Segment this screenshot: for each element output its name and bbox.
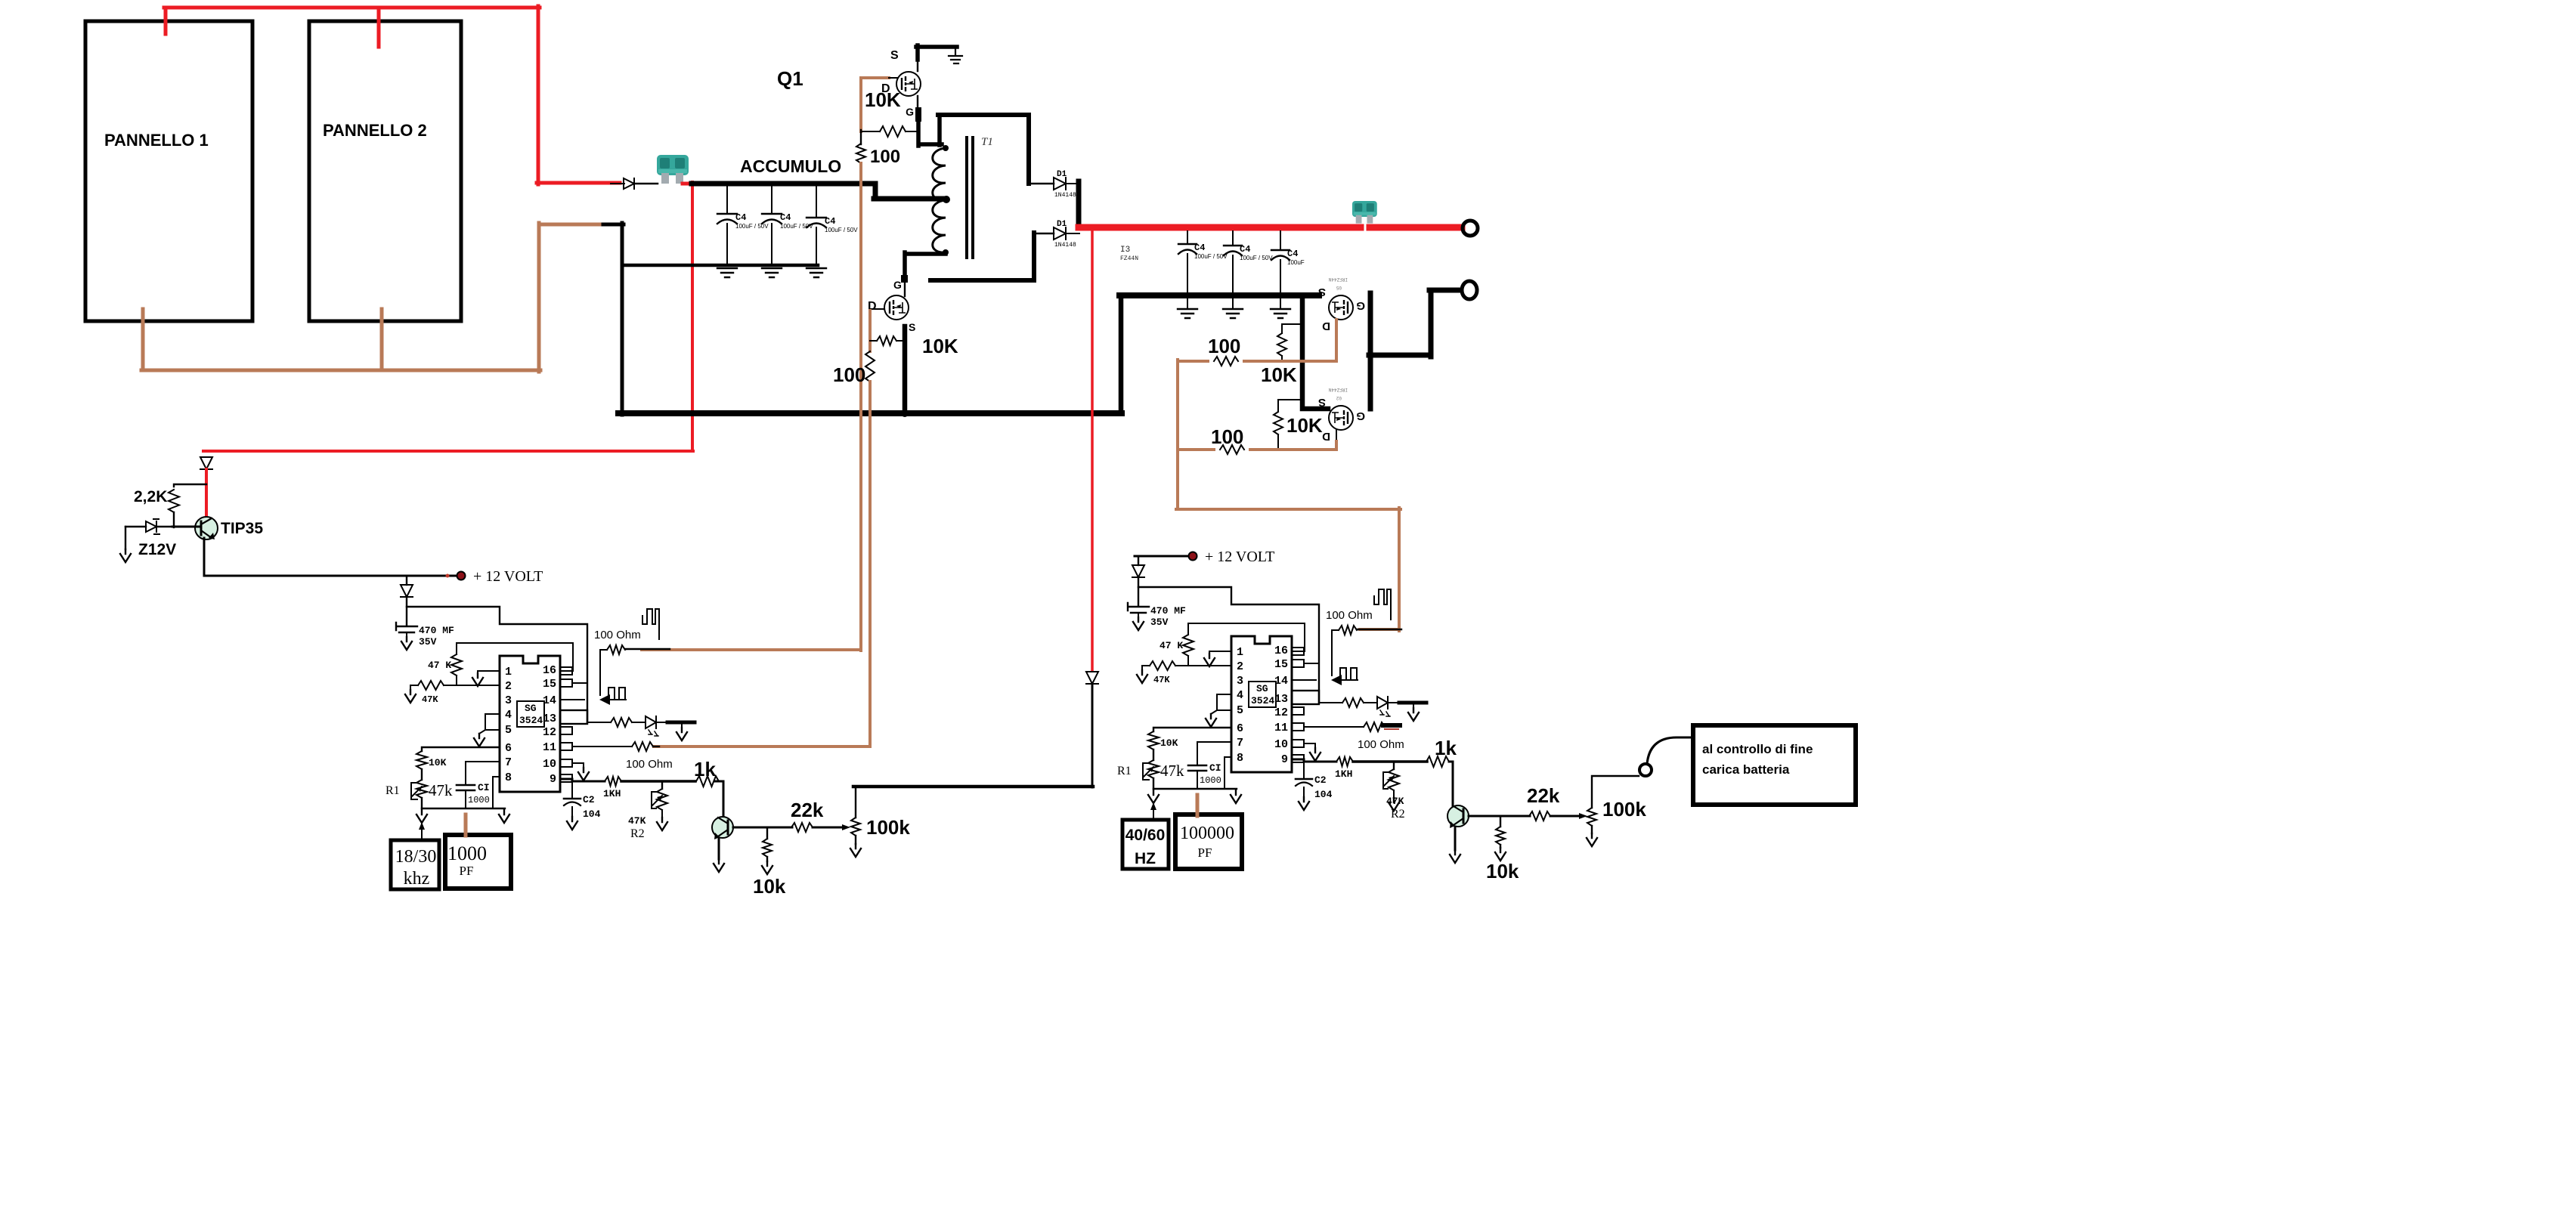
wire curve to control box — [1647, 737, 1694, 764]
resistor 2,2K — [174, 484, 206, 487]
svg-text:carica batteria: carica batteria — [1702, 762, 1790, 777]
potentiometer R1 47k IC2 — [1148, 760, 1159, 778]
resistor IC2 pin13 LED — [1342, 698, 1364, 707]
resistor 47K IC2 pin2 to ground — [1150, 661, 1175, 670]
zener Z12V — [125, 526, 146, 527]
svg-text:PF: PF — [460, 864, 474, 878]
svg-text:1KH: 1KH — [603, 788, 621, 799]
wire right caps ground rail — [1119, 292, 1319, 298]
wire IC1 pin7 — [466, 762, 500, 784]
svg-text:HZ: HZ — [1135, 850, 1156, 867]
box al controllo di fine carica batteria — [1693, 725, 1856, 805]
wire IC2 pin9 compensation run — [1292, 759, 1336, 762]
svg-text:8: 8 — [1237, 752, 1243, 765]
wire +12V to IC2 supply — [1138, 577, 1319, 703]
potentiometer R1 47k IC1 — [416, 780, 427, 798]
svg-text:35V: 35V — [419, 636, 437, 648]
svg-text:47K: 47K — [1153, 675, 1170, 685]
svg-text:9: 9 — [550, 773, 556, 786]
svg-text:14: 14 — [543, 694, 556, 707]
wire brown Q2 gate-drive upper — [868, 311, 872, 351]
svg-text:IRFZ44N: IRFZ44N — [1328, 277, 1348, 282]
diode D1 upper 1N4148 — [1054, 178, 1066, 190]
wire +12V stub block2 — [1135, 555, 1188, 558]
resistor 1k IC2 — [1410, 761, 1427, 763]
svg-text:+ 12 VOLT: + 12 VOLT — [473, 568, 543, 585]
wire red output positive bus — [1079, 224, 1361, 231]
svg-text:47k: 47k — [429, 781, 453, 799]
svg-text:PANNELLO 1: PANNELLO 1 — [104, 131, 209, 150]
wire lower accumulo rail — [622, 264, 818, 267]
resistor 1KH IC2 — [1336, 757, 1353, 766]
svg-text:R1: R1 — [385, 784, 400, 797]
IC2 SG3524 label box — [1249, 682, 1276, 707]
svg-text:1: 1 — [505, 666, 512, 679]
resistor 10K Q2 — [870, 340, 877, 342]
diode D1 lower 1N4148 — [1054, 227, 1066, 240]
resistor 10K IC2 timing — [1148, 731, 1159, 750]
ground below C4 #3 — [807, 268, 826, 277]
arrow from 40/60 box — [1153, 807, 1154, 819]
wire thick output to terminal 2 — [1369, 290, 1461, 409]
wire black M4 drain lead — [1336, 429, 1337, 441]
ground below R2 IC1 — [657, 818, 667, 830]
svg-text:3524: 3524 — [1251, 695, 1274, 706]
wire red accumulo node down to TIP35 regulator — [203, 182, 693, 451]
capacitor C4 filter #2 — [771, 187, 772, 214]
wire IC1 pin1 to ground — [478, 671, 500, 673]
node Q2 gate terminal — [901, 275, 908, 283]
ground below output C4 #2 — [1223, 309, 1243, 318]
wire IC1 pin10 to ground — [572, 763, 584, 768]
svg-text:100uF: 100uF — [1287, 259, 1305, 266]
svg-text:2: 2 — [1237, 660, 1243, 673]
ground left timing rail IC1 — [416, 810, 427, 823]
potentiometer 100k block1 — [842, 824, 850, 830]
ground below C2 IC2 — [1299, 797, 1309, 810]
fuse F2 output — [1352, 201, 1377, 224]
svg-text:13: 13 — [1274, 693, 1288, 706]
svg-text:15: 15 — [1274, 658, 1288, 671]
wire IC1 pin15 Vcc — [572, 682, 587, 684]
diode above TIP35 — [203, 450, 209, 453]
ground left timing rail IC2 — [1148, 790, 1159, 803]
capacitor CI IC2 — [1188, 765, 1206, 771]
svg-text:4: 4 — [505, 709, 512, 722]
squarewave glyph upper IC2 — [1374, 589, 1391, 620]
node primary bottom — [943, 249, 949, 255]
svg-text:6: 6 — [1237, 722, 1243, 735]
svg-text:CI: CI — [1209, 762, 1221, 774]
svg-text:khz: khz — [404, 869, 430, 889]
wire brown gate-drive to Q1 drain — [861, 78, 889, 131]
svg-text:1KH: 1KH — [1335, 768, 1352, 780]
node small red mark — [446, 574, 450, 578]
IC2 pin stubs right — [1292, 648, 1304, 655]
svg-text:100uF / 50V: 100uF / 50V — [1240, 255, 1273, 261]
svg-text:S: S — [1318, 286, 1326, 298]
box 100000 PF — [1175, 815, 1242, 869]
wire thick pot top link — [853, 785, 1093, 789]
capacitor C4 output filter #1 — [1187, 231, 1188, 244]
svg-text:15: 15 — [543, 678, 556, 691]
squarewave glyph at IC1 pin14 — [608, 688, 626, 700]
output terminal positive — [1463, 221, 1478, 236]
wire brown M4 gate rail — [1178, 441, 1336, 450]
wire emitter run block2 — [1469, 815, 1530, 818]
node +12V block1 — [457, 572, 465, 580]
svg-text:G: G — [1356, 410, 1365, 422]
svg-text:R1: R1 — [1117, 765, 1132, 777]
svg-text:D: D — [1322, 430, 1330, 443]
LED at IC2 pin13 — [1377, 697, 1388, 709]
resistor 100 in Q1 drive line — [856, 144, 865, 163]
svg-text:10K: 10K — [1261, 363, 1297, 386]
svg-text:47K: 47K — [628, 815, 646, 827]
wire IC1 pin13 row — [587, 722, 611, 723]
wire timing bottom rail IC1 — [422, 808, 505, 809]
capacitor 470MF PWM1 — [406, 607, 407, 625]
wire brown stub to 1000PF box — [464, 815, 468, 836]
node Q1 gate terminal — [915, 107, 921, 122]
wire thick at IC2 LED — [1399, 701, 1426, 705]
IC1 SG3524 label box — [517, 701, 544, 727]
svg-text:FZ44N: FZ44N — [1120, 255, 1138, 262]
junction dot on ground bus left — [705, 410, 711, 416]
ground below output C4 #3 — [1271, 309, 1290, 318]
IC2 left pin numbers — [1237, 646, 1243, 765]
IC1 right pin numbers — [543, 664, 556, 786]
wire thick stub IC2 pin11 — [1383, 723, 1400, 728]
svg-text:2: 2 — [505, 680, 512, 693]
wire red fuse to node — [683, 182, 693, 186]
svg-text:10K: 10K — [1286, 414, 1323, 437]
wire IC2 pin15 Vcc — [1304, 663, 1319, 664]
resistor 100 in Q2 drive line — [865, 351, 875, 382]
resistor 10K Q1 gate — [861, 131, 880, 132]
svg-text:14: 14 — [1274, 675, 1288, 688]
svg-text:D1: D1 — [1057, 170, 1067, 179]
resistor 100 Ohm IC1 pin16 drive — [600, 649, 607, 651]
LED at IC1 pin13 — [646, 716, 656, 728]
wire brown gate rails to PWM2 — [1176, 360, 1401, 631]
svg-text:D1: D1 — [1057, 220, 1067, 229]
capacitor C4 filter #3 — [816, 187, 817, 218]
ground at IC1 pins4-5 — [474, 734, 485, 747]
box 40/60 HZ — [1122, 820, 1169, 869]
resistor 47K pot R2 IC1 — [661, 781, 663, 789]
svg-text:470 MF: 470 MF — [1150, 605, 1186, 617]
svg-text:C4: C4 — [1194, 243, 1205, 253]
ground below output C4 #1 — [1178, 309, 1197, 318]
solar panel PANNELLO 1 — [85, 21, 252, 321]
diode in sense line — [1086, 672, 1098, 684]
svg-text:47K: 47K — [1386, 796, 1404, 807]
svg-text:C4: C4 — [1287, 249, 1298, 259]
svg-text:10k: 10k — [1486, 860, 1519, 883]
capacitor C4 filter #1 — [726, 187, 728, 214]
resistor 47K IC2 pin16-pin2 — [1187, 623, 1189, 635]
wire to diode D1 upper — [1029, 183, 1054, 185]
svg-text:10K: 10K — [865, 88, 901, 111]
ground at zener — [125, 527, 126, 549]
capacitor C2 104 IC2 — [1303, 762, 1305, 777]
wire sense line to 100k pot node — [1091, 684, 1094, 787]
resistor 1KH IC1 — [605, 777, 621, 786]
wire IC2 pin6 timing — [1153, 728, 1231, 731]
svg-text:100 Ohm: 100 Ohm — [1326, 609, 1373, 622]
svg-text:100 Ohm: 100 Ohm — [594, 629, 641, 641]
resistor 1k IC1 — [696, 776, 719, 787]
squarewave glyph upper IC1 — [642, 609, 659, 639]
svg-text:35V: 35V — [1150, 617, 1169, 628]
box 1000 PF — [445, 835, 511, 889]
svg-text:Q1: Q1 — [777, 67, 803, 90]
svg-text:100: 100 — [870, 147, 900, 167]
ground at IC1 pin1 — [472, 673, 483, 686]
wire IC2 pin1 to ground — [1209, 651, 1231, 654]
svg-text:5: 5 — [1237, 704, 1243, 717]
svg-text:G: G — [906, 106, 914, 118]
svg-text:47k: 47k — [1160, 762, 1184, 780]
wire brown gate-drive lower run — [642, 163, 861, 651]
wire thick transformer secondary top to D1 — [938, 115, 1029, 184]
ground at IC2 pins4-5 — [1206, 714, 1216, 727]
svg-text:13: 13 — [543, 713, 556, 725]
wire IC1 pin6 timing — [422, 747, 500, 751]
svg-text:11: 11 — [1274, 722, 1288, 734]
resistor 22k block2 — [1529, 811, 1550, 821]
svg-text:D: D — [1322, 320, 1330, 332]
svg-text:SG: SG — [1256, 683, 1268, 694]
resistor IC1 pin13 LED — [611, 718, 632, 727]
wire brown M3 gate rail — [1178, 320, 1336, 361]
mosfet M4 lower output — [1329, 406, 1353, 430]
svg-text:al controllo di fine: al controllo di fine — [1702, 742, 1813, 756]
svg-text:104: 104 — [583, 808, 601, 820]
wire +12V to IC1 supply — [407, 597, 587, 722]
wire IC2 pin16 Vref loop — [1188, 623, 1305, 651]
svg-text:100uF / 50V: 100uF / 50V — [735, 223, 769, 230]
svg-text:C4: C4 — [735, 212, 746, 223]
svg-text:100uF / 50V: 100uF / 50V — [1194, 253, 1228, 260]
svg-text:1k: 1k — [694, 758, 716, 781]
svg-text:100: 100 — [1211, 425, 1243, 448]
wire Q1 gate down to transformer — [917, 96, 918, 133]
svg-text:C2: C2 — [1314, 774, 1327, 786]
svg-text:3524: 3524 — [519, 715, 543, 726]
svg-text:5: 5 — [505, 724, 512, 737]
svg-text:16: 16 — [543, 664, 556, 677]
svg-text:18/30: 18/30 — [395, 847, 437, 867]
svg-text:2,2K: 2,2K — [134, 488, 167, 505]
resistor 10K at M3 — [1282, 324, 1302, 333]
resistor 47K pot R2 IC2 — [1393, 762, 1395, 769]
wire 100 Ohm tap down to pin14 node IC2 — [1331, 631, 1333, 675]
svg-text:3: 3 — [505, 694, 512, 707]
wire IC2 pin2 — [1175, 665, 1231, 666]
solar panel PANNELLO 2 — [309, 21, 461, 321]
wire IC1 pin11 drive — [572, 746, 632, 747]
svg-text:4: 4 — [1237, 689, 1243, 702]
svg-text:7: 7 — [1237, 737, 1243, 750]
svg-text:C4: C4 — [780, 212, 791, 223]
ground below C4 #2 — [762, 268, 782, 277]
svg-text:1: 1 — [1237, 646, 1243, 659]
resistor 100 Ohm IC2 pin16 drive — [1332, 629, 1339, 631]
svg-text:6: 6 — [505, 742, 512, 755]
IC2 right pin numbers — [1274, 645, 1288, 766]
ground below C4 #1 — [717, 268, 737, 277]
svg-text:100: 100 — [1208, 335, 1240, 357]
wire IC1 pin14 output — [560, 699, 584, 700]
svg-text:I3: I3 — [1120, 246, 1130, 255]
arrow from 18/30 box — [421, 827, 423, 840]
wire IC2 pin8 — [1225, 757, 1231, 789]
wire thick source bus M3-M4 — [1302, 295, 1328, 409]
svg-text:Z12V: Z12V — [138, 541, 176, 558]
ground below R2 IC2 — [1389, 798, 1399, 811]
wire main ground bus — [618, 410, 1122, 416]
resistor 22k block1 — [791, 823, 813, 832]
svg-text:100: 100 — [833, 363, 865, 386]
svg-text:104: 104 — [1314, 789, 1333, 800]
svg-text:100 Ohm: 100 Ohm — [626, 758, 673, 771]
capacitor C4 output filter #3 — [1280, 231, 1281, 250]
svg-text:S: S — [909, 321, 915, 333]
svg-text:1000: 1000 — [468, 795, 490, 805]
wire IC1 pin2 — [444, 685, 500, 686]
svg-text:PF: PF — [1198, 845, 1212, 860]
ground at IC1 pin2 resistor — [410, 685, 411, 690]
svg-text:10: 10 — [1274, 738, 1288, 751]
wire TIP35 emitter to +12V rail — [204, 538, 460, 576]
resistor 100 in M4 rail — [1215, 445, 1249, 454]
wire IC2 pin7 — [1197, 742, 1231, 764]
svg-text:C4: C4 — [825, 216, 835, 227]
svg-text:10K: 10K — [922, 335, 958, 357]
wire thick at IC1 LED — [667, 721, 695, 725]
resistor 47K IC1 pin16-pin2 — [456, 643, 457, 654]
mosfet M3 upper output — [1329, 295, 1353, 320]
wire right rail to ground bus — [1119, 295, 1124, 413]
potentiometer 100k block2 — [1579, 813, 1587, 819]
node primary top — [943, 145, 949, 151]
ground below 100k block2 — [1587, 833, 1597, 846]
svg-text:05: 05 — [1336, 285, 1342, 290]
output terminal negative — [1462, 281, 1477, 299]
svg-text:47 K: 47 K — [1160, 640, 1183, 651]
svg-text:10k: 10k — [753, 875, 786, 898]
svg-text:100uF / 50V: 100uF / 50V — [825, 227, 858, 233]
fuse F1 input — [657, 155, 689, 184]
node +12V block2 — [1189, 552, 1197, 560]
svg-text:1k: 1k — [1435, 737, 1457, 759]
wire IC2 pin14 output — [1292, 679, 1316, 681]
svg-text:3: 3 — [1237, 675, 1243, 688]
wire black panel negative to filter rail — [603, 223, 624, 415]
resistor 100 Ohm IC1 pin11 — [632, 742, 653, 751]
wire Q1 source to ground — [917, 60, 918, 71]
capacitor C4 output filter #2 — [1232, 231, 1234, 246]
svg-text:G: G — [1356, 299, 1365, 312]
svg-text:1000: 1000 — [1200, 775, 1221, 786]
capacitor CI IC1 — [457, 785, 475, 790]
transistor TIP35 — [195, 517, 218, 539]
svg-text:SG: SG — [525, 703, 537, 714]
diode +12V feed PWM2 — [1138, 556, 1139, 565]
svg-text:470 MF: 470 MF — [419, 625, 454, 636]
ground right timing rail IC2 — [1231, 790, 1241, 803]
wire IC1 pin16 Vref loop — [457, 643, 573, 671]
svg-text:22k: 22k — [1527, 784, 1560, 807]
squarewave glyph at IC2 pin14 — [1340, 668, 1358, 680]
svg-text:100 Ohm: 100 Ohm — [1358, 738, 1404, 751]
svg-text:40/60: 40/60 — [1125, 827, 1166, 844]
junction dot on ground bus at Q2 source — [901, 410, 909, 417]
wire red from output bus down to battery-charge sense — [1091, 229, 1094, 671]
svg-text:10K: 10K — [429, 757, 447, 768]
diode +12V feed PWM1 — [406, 576, 407, 585]
resistor 10K IC1 timing — [416, 751, 427, 769]
svg-text:10: 10 — [543, 758, 556, 771]
svg-text:T1: T1 — [981, 136, 993, 148]
ground at IC2 pin2 resistor — [1141, 666, 1143, 670]
ground below 470MF PWM2 — [1133, 617, 1144, 630]
ground at IC2 pin13 net — [1413, 704, 1414, 708]
node transformer center tap — [943, 196, 950, 203]
IC SG3524 #2 body — [1231, 636, 1292, 772]
wire IC1 pin8 — [493, 777, 500, 808]
svg-text:47 K: 47 K — [428, 660, 451, 671]
svg-text:12: 12 — [1274, 706, 1288, 719]
arrow at IC1 pin14 — [599, 694, 610, 705]
ground below 10k block1 — [762, 861, 772, 874]
svg-text:11: 11 — [543, 741, 556, 754]
svg-text:7: 7 — [505, 756, 512, 769]
ground below transistor block2 — [1450, 850, 1460, 863]
resistor 100 in M3 rail — [1209, 357, 1243, 366]
IC1 pin stubs right — [560, 667, 572, 675]
wire to diode D1 lower — [1034, 233, 1054, 235]
mosfet Q1 — [896, 72, 921, 96]
wire IC1 pins4-5 bracket — [479, 714, 500, 734]
capacitor 470MF PWM2 — [1138, 587, 1139, 605]
svg-text:R2: R2 — [1391, 808, 1405, 821]
svg-text:100000: 100000 — [1180, 824, 1234, 843]
wire thick transformer bottom to D1 lower — [930, 233, 1034, 280]
resistor 10k block2 — [1500, 816, 1501, 827]
svg-text:C2: C2 — [583, 794, 595, 805]
wire transformer primary bottom elbow to Q2 gate — [905, 252, 946, 277]
resistor 47K IC1 pin2 to ground — [418, 681, 444, 690]
svg-text:47K: 47K — [422, 694, 438, 705]
ground below 470MF PWM1 — [401, 637, 412, 650]
wire emitter run block1 — [733, 827, 792, 829]
svg-text:CI: CI — [478, 782, 490, 793]
transformer T1 core bars — [967, 138, 973, 258]
wire brown stub to 100000PF box — [1196, 795, 1200, 816]
wire red diode to TIP35 collector — [205, 469, 208, 518]
svg-text:PANNELLO 2: PANNELLO 2 — [323, 121, 427, 140]
svg-text:R2: R2 — [630, 827, 645, 840]
wire brown negative bus from panels — [141, 223, 605, 372]
arrow at IC2 pin14 — [1331, 675, 1342, 685]
svg-text:ACCUMULO: ACCUMULO — [740, 156, 841, 176]
wire thick gate-transformer elbow — [918, 115, 942, 146]
ground at IC2 pin1 — [1204, 654, 1215, 666]
ground below 10k block2 — [1495, 848, 1506, 861]
